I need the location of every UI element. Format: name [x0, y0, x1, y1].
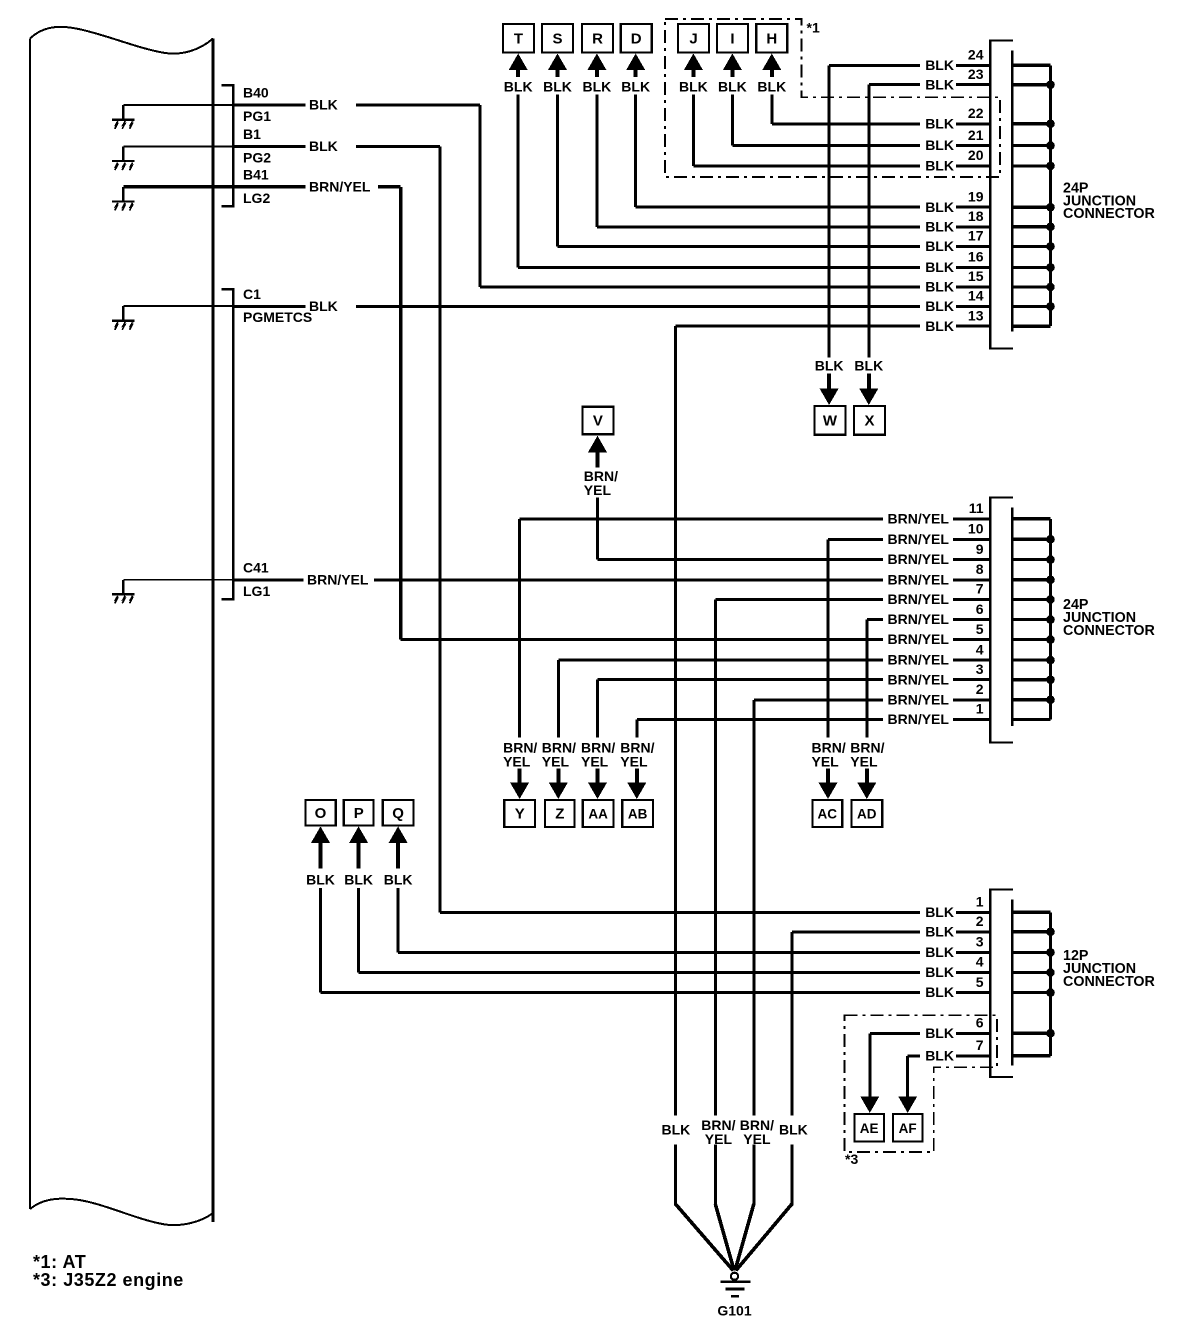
wire label BRN/YEL (AD)	[850, 740, 884, 770]
label 12P JUNCTION CONNECTOR	[1063, 948, 1156, 990]
24P junction connector (middle) pin number 7	[976, 581, 984, 597]
wire label BRN/YEL (C41)	[307, 571, 369, 587]
wire label BLK (12P pin 6)	[925, 1025, 954, 1041]
svg-text:BLK: BLK	[662, 1122, 691, 1138]
connector box Q	[383, 800, 414, 825]
connector box AC	[812, 800, 842, 827]
ground (LG1)	[112, 580, 135, 604]
24P junction connector (upper) pin number 22	[968, 105, 984, 121]
wire label BRN/YEL (B41)	[309, 178, 371, 194]
svg-text:YEL: YEL	[503, 754, 531, 770]
svg-text:*1: AT: *1: AT	[33, 1252, 86, 1272]
svg-text:BRN/YEL: BRN/YEL	[888, 591, 950, 607]
24P junction connector (middle) bus bar	[1049, 519, 1052, 720]
arrow into D	[626, 54, 645, 78]
arrow into I	[723, 54, 742, 78]
wire label BRN/YEL (middle pin 7)	[888, 591, 950, 607]
svg-text:BRN/YEL: BRN/YEL	[888, 551, 950, 567]
wire T to junction pin 16	[517, 95, 991, 269]
svg-text:S: S	[552, 31, 562, 48]
svg-text:YEL: YEL	[743, 1131, 771, 1147]
svg-text:22: 22	[968, 105, 984, 121]
wire S to junction pin 17	[556, 95, 990, 248]
24P junction connector (upper) pin 23 stub	[1012, 83, 1050, 86]
wire 12P junction pin 2 drop (BLK) to G101	[736, 930, 990, 1270]
svg-text:AA: AA	[588, 807, 608, 822]
svg-text:2: 2	[976, 913, 984, 929]
wire label BLK (J)	[679, 79, 708, 95]
connector box S	[542, 24, 573, 53]
wire label BLK (12P pin 1)	[925, 904, 954, 920]
svg-text:*3: *3	[845, 1151, 858, 1167]
internal ground wire (PG2)	[123, 146, 232, 148]
svg-text:BLK: BLK	[925, 279, 954, 295]
svg-text:BLK: BLK	[621, 79, 650, 95]
connector box AD	[851, 800, 882, 827]
svg-text:BLK: BLK	[925, 298, 954, 314]
24P junction connector (upper) pin number 14	[968, 288, 984, 304]
wire label BLK (T)	[504, 79, 533, 95]
pin label C1	[243, 286, 261, 302]
12P junction connector pin 3 bus junction	[1046, 948, 1055, 957]
12P junction connector body	[989, 889, 1013, 1078]
wire label BRN/YEL (middle pin 2)	[888, 691, 950, 707]
connector box V	[582, 407, 613, 435]
wire label BLK (upper pin 20)	[925, 158, 954, 174]
svg-text:YEL: YEL	[584, 482, 612, 498]
wire 24P junction pin 1 to AB (BRN/YEL)	[635, 718, 990, 738]
wire label BLK (B40)	[309, 97, 338, 113]
svg-text:1: 1	[976, 701, 984, 717]
svg-text:BLK: BLK	[757, 79, 786, 95]
svg-text:B41: B41	[243, 166, 269, 182]
wire label BRN/YEL (AC)	[812, 740, 846, 770]
wire label BLK (12P pin 7)	[925, 1047, 954, 1063]
arrow into V	[588, 436, 607, 468]
12P junction connector pin number 7	[976, 1037, 984, 1053]
pin label B40	[243, 85, 269, 101]
wire label BLK (D)	[621, 79, 650, 95]
24P junction connector (middle) pin 8 stub	[1012, 578, 1050, 581]
24P junction connector (middle) pin 9 stub	[1012, 558, 1050, 561]
24P junction connector (upper) pin 22 bus junction	[1046, 120, 1055, 129]
pin label B41	[243, 166, 269, 182]
svg-text:YEL: YEL	[850, 754, 878, 770]
24P junction connector (middle) pin 9 bus junction	[1046, 555, 1055, 564]
svg-text:YEL: YEL	[812, 754, 840, 770]
svg-text:14: 14	[968, 288, 984, 304]
24P junction connector (upper) pin number 19	[968, 188, 984, 204]
arrow into T	[509, 54, 528, 78]
connector box W	[815, 406, 846, 435]
label G101	[717, 1303, 751, 1319]
svg-text:PGMETCS: PGMETCS	[243, 309, 312, 325]
wire B40/PG1 to junction pin 15 (BLK)	[233, 104, 990, 289]
wire label BLK (upper pin 22)	[925, 115, 954, 131]
svg-text:BLK: BLK	[925, 238, 954, 254]
wire 12P junction pin 7 to AF (BLK)	[906, 1054, 990, 1098]
24P junction connector (upper) pin 23 bus junction	[1046, 80, 1055, 89]
svg-text:BLK: BLK	[925, 1025, 954, 1041]
wire label BLK (upper pin 19)	[925, 199, 954, 215]
wire label BRN/YEL (V)	[584, 468, 618, 498]
connector box H	[756, 24, 787, 53]
svg-text:17: 17	[968, 228, 984, 244]
24P junction connector (middle) pin 5 bus junction	[1046, 635, 1055, 644]
12P junction connector pin 5 bus junction	[1046, 988, 1055, 997]
svg-text:1: 1	[976, 894, 984, 910]
svg-text:CONNECTOR: CONNECTOR	[1063, 974, 1156, 990]
svg-text:BLK: BLK	[504, 79, 533, 95]
internal ground wire (PG1)	[123, 104, 232, 106]
connector box Y	[504, 800, 535, 827]
24P junction connector (middle) pin 4 stub	[1012, 659, 1050, 662]
svg-text:BRN/YEL: BRN/YEL	[888, 510, 950, 526]
svg-text:BLK: BLK	[309, 97, 338, 113]
24P junction connector (upper) pin 13 stub	[1012, 325, 1050, 328]
wire P to 12P junction pin 4	[357, 888, 990, 974]
svg-text:BLK: BLK	[925, 158, 954, 174]
svg-text:BRN/YEL: BRN/YEL	[307, 571, 369, 587]
24P junction connector (upper) body	[989, 40, 1013, 350]
svg-text:BLK: BLK	[779, 1122, 808, 1138]
24P junction connector (middle) pin number 8	[976, 561, 984, 577]
svg-text:BLK: BLK	[925, 318, 954, 334]
wire label BLK (12P pin 3)	[925, 944, 954, 960]
svg-text:P: P	[354, 805, 364, 822]
24P junction connector (middle) pin 5 stub	[1012, 638, 1050, 641]
svg-text:AE: AE	[860, 1121, 879, 1136]
svg-text:10: 10	[968, 521, 984, 537]
svg-text:BLK: BLK	[384, 872, 413, 888]
svg-text:X: X	[864, 413, 874, 430]
24P junction connector (middle) pin 4 bus junction	[1046, 656, 1055, 665]
wire label BLK (upper pin 17)	[925, 238, 954, 254]
wire label BRN/YEL (middle pin 9)	[888, 551, 950, 567]
svg-text:LG1: LG1	[243, 583, 270, 599]
arrow into W	[820, 374, 839, 406]
24P junction connector (upper) pin 20 stub	[1012, 164, 1050, 167]
svg-text:11: 11	[969, 500, 984, 516]
12P junction connector pin 1 stub	[1012, 911, 1050, 914]
24P junction connector (middle) pin number 4	[976, 641, 984, 657]
label 24P JUNCTION CONNECTOR (middle)	[1063, 597, 1156, 639]
svg-text:BLK: BLK	[854, 358, 883, 374]
wire junction pin 23 to X	[867, 83, 990, 357]
svg-text:BLK: BLK	[925, 944, 954, 960]
svg-text:BRN/YEL: BRN/YEL	[888, 611, 950, 627]
svg-text:BRN/YEL: BRN/YEL	[888, 652, 950, 668]
arrow into Q	[389, 826, 408, 868]
connector box T	[503, 24, 534, 53]
svg-text:BLK: BLK	[344, 872, 373, 888]
wire label BLK (12P pin 5)	[925, 984, 954, 1000]
wire label BLK (upper pin 18)	[925, 218, 954, 234]
svg-text:BRN/YEL: BRN/YEL	[888, 691, 950, 707]
svg-text:18: 18	[968, 208, 984, 224]
wire C1/PGMETCS to junction pin 14 (BLK)	[233, 305, 990, 308]
svg-text:BLK: BLK	[925, 259, 954, 275]
24P junction connector (middle) pin 11 stub	[1012, 517, 1050, 520]
24P junction connector (middle) pin 10 bus junction	[1046, 535, 1055, 544]
connector box X	[854, 406, 885, 435]
wire I to junction pin 21	[731, 95, 990, 148]
24P junction connector (upper) pin number 23	[968, 66, 984, 82]
svg-text:BRN/YEL: BRN/YEL	[309, 178, 371, 194]
wire label BRN/YEL (middle pin 8)	[888, 571, 950, 587]
12P junction connector pin 6 stub	[1012, 1032, 1050, 1035]
wire O to 12P junction pin 5	[319, 888, 990, 994]
svg-text:19: 19	[968, 188, 984, 204]
svg-text:24: 24	[968, 47, 984, 63]
24P junction connector (middle) pin 7 stub	[1012, 598, 1050, 601]
wire label BLK (R)	[583, 79, 612, 95]
24P junction connector (upper) pin 19 stub	[1012, 206, 1050, 209]
connector box O	[305, 800, 335, 825]
24P junction connector (middle) pin number 9	[976, 541, 984, 557]
24P junction connector (upper) pin number 15	[968, 268, 984, 284]
svg-text:YEL: YEL	[620, 754, 648, 770]
24P junction connector (middle) pin 2 stub	[1012, 698, 1050, 701]
wire label BLK (H)	[757, 79, 786, 95]
svg-text:O: O	[315, 805, 327, 822]
wire 24P junction pin 3 to AA (BRN/YEL)	[596, 678, 990, 737]
connector box D	[621, 24, 652, 53]
24P junction connector (upper) pin number 21	[968, 127, 984, 143]
label 24P JUNCTION CONNECTOR (upper)	[1063, 180, 1156, 222]
svg-text:7: 7	[976, 1037, 984, 1053]
12P junction connector pin 7 stub	[1012, 1054, 1050, 1057]
svg-text:D: D	[631, 31, 642, 48]
24P junction connector (middle) pin 3 bus junction	[1046, 675, 1055, 684]
wire 24P junction pin 10 to AC (BRN/YEL)	[827, 538, 991, 738]
wire label BLK (upper pin 16)	[925, 259, 954, 275]
24P junction connector (middle) pin number 5	[976, 621, 984, 637]
wire label BRN/YEL (middle pin 5)	[888, 631, 950, 647]
wire 12P junction pin 6 to AE (BLK)	[868, 1032, 990, 1098]
svg-text:AD: AD	[857, 807, 877, 822]
connector box AE	[854, 1114, 884, 1142]
24P junction connector (middle) pin 3 stub	[1012, 678, 1050, 681]
wire label BLK (C1)	[309, 298, 338, 314]
wire B1/PG2 to 12P junction pin 1 (BLK)	[233, 145, 990, 914]
svg-text:YEL: YEL	[581, 754, 609, 770]
arrow into AE	[860, 1096, 879, 1113]
arrow into S	[548, 54, 567, 78]
24P junction connector (upper) pin 14 stub	[1012, 305, 1050, 308]
svg-text:BLK: BLK	[679, 79, 708, 95]
wire label BRN/YEL (Y)	[503, 740, 537, 770]
wire 24P junction pin 4 to Z (BRN/YEL)	[557, 659, 991, 738]
wire D to junction pin 19	[634, 95, 990, 209]
24P junction connector (middle) pin number 3	[976, 661, 984, 677]
24P junction connector (upper) pin 24 stub	[1012, 64, 1050, 67]
24P junction connector (upper) pin 14 bus junction	[1046, 302, 1055, 311]
wire label BLK (upper pin 15)	[925, 279, 954, 295]
24P junction connector (upper) pin 22 stub	[1012, 122, 1050, 125]
ground (PG2)	[112, 147, 135, 171]
svg-text:7: 7	[976, 581, 984, 597]
24P junction connector (middle) pin number 10	[968, 521, 984, 537]
svg-text:YEL: YEL	[705, 1131, 733, 1147]
12P junction connector pin 2 stub	[1012, 930, 1050, 933]
svg-text:Y: Y	[515, 806, 525, 823]
wire 24P junction pin 11 to Y (BRN/YEL)	[518, 517, 990, 737]
24P junction connector (upper) bus bar	[1049, 65, 1052, 326]
svg-text:Q: Q	[392, 805, 404, 822]
24P junction connector (upper) pin number 16	[968, 249, 984, 265]
svg-text:H: H	[766, 31, 777, 48]
svg-text:BLK: BLK	[309, 298, 338, 314]
wire label BRN/YEL (AA)	[581, 740, 615, 770]
svg-text:T: T	[514, 31, 523, 48]
svg-text:BLK: BLK	[583, 79, 612, 95]
12P junction connector bus bar	[1049, 912, 1052, 1056]
arrow into Z	[549, 769, 568, 800]
24P junction connector (upper) pin 19 bus junction	[1046, 203, 1055, 212]
24P junction connector (upper) pin 17 stub	[1012, 245, 1050, 248]
svg-text:J: J	[689, 31, 697, 48]
arrow into AC	[819, 769, 838, 800]
ground (PGMETCS)	[112, 306, 135, 330]
wire junction pin 24 to W	[828, 64, 991, 358]
12P junction connector pin number 3	[976, 934, 984, 950]
wire Q to 12P junction pin 3	[397, 888, 991, 954]
24P junction connector (middle) pin 8 bus junction	[1046, 576, 1055, 585]
connector box AB	[622, 800, 653, 827]
24P junction connector (middle) pin 10 stub	[1012, 538, 1050, 541]
24P junction connector (middle) pin 6 bus junction	[1046, 615, 1055, 624]
wire label BLK (X)	[854, 358, 883, 374]
pin label LG1	[243, 583, 270, 599]
svg-text:21: 21	[968, 127, 984, 143]
arrow into AA	[588, 769, 607, 800]
svg-text:B1: B1	[243, 126, 261, 142]
wire C41/LG1 to 24P junction pin 8 (BRN/YEL)	[233, 578, 990, 581]
svg-text:4: 4	[976, 641, 984, 657]
svg-text:R: R	[592, 31, 603, 48]
svg-text:BLK: BLK	[309, 138, 338, 154]
24P junction connector (upper) pin number 17	[968, 228, 984, 244]
arrow into Y	[510, 769, 529, 800]
pin label PG1	[243, 108, 271, 124]
connector box R	[582, 24, 613, 53]
svg-text:9: 9	[976, 541, 984, 557]
svg-text:BLK: BLK	[925, 1047, 954, 1063]
ground G101	[720, 1273, 750, 1298]
svg-text:*1: *1	[807, 20, 820, 36]
24P junction connector (middle) pin 6 stub	[1012, 618, 1050, 621]
12P junction connector pin 3 stub	[1012, 951, 1050, 954]
24P junction connector (middle) pin number 11	[969, 500, 984, 516]
arrow into X	[859, 374, 878, 406]
12P junction connector pin number 1	[976, 894, 984, 910]
svg-text:2: 2	[976, 681, 984, 697]
svg-text:PG2: PG2	[243, 150, 271, 166]
wire label BRN/YEL (middle pin 10)	[888, 531, 950, 547]
pin label PGMETCS	[243, 309, 312, 325]
dash-dot option box *3 (J35Z2)	[845, 1015, 997, 1152]
wire B41/LG2 to 24P junction pin 5 (BRN/YEL)	[233, 185, 990, 641]
wire label BLK (Q)	[384, 872, 413, 888]
svg-text:C41: C41	[243, 559, 269, 575]
label *3	[845, 1151, 858, 1167]
wire label BLK (upper pin 14)	[925, 298, 954, 314]
24P junction connector (middle) pin 7 bus junction	[1046, 595, 1055, 604]
svg-text:G101: G101	[717, 1303, 751, 1319]
connector box J	[678, 24, 709, 53]
svg-text:BLK: BLK	[925, 218, 954, 234]
24P junction connector (upper) pin 15 stub	[1012, 285, 1050, 288]
wire label BLK (S)	[543, 79, 572, 95]
svg-text:BRN/YEL: BRN/YEL	[888, 531, 950, 547]
wire label at G101 drop	[740, 1117, 774, 1147]
arrow into AD	[857, 769, 876, 800]
arrow into J	[684, 54, 703, 78]
svg-text:6: 6	[976, 1015, 984, 1031]
svg-text:BLK: BLK	[925, 923, 954, 939]
wire junction pin 13 drop (BLK) to G101	[674, 325, 990, 1271]
24P junction connector (upper) pin number 13	[968, 307, 984, 323]
svg-text:PG1: PG1	[243, 108, 271, 124]
connector box I	[717, 24, 748, 53]
wire label BLK (upper pin 21)	[925, 137, 954, 153]
arrow into O	[311, 826, 330, 868]
pin label B1	[243, 126, 261, 142]
12P junction connector pin 6 bus junction	[1046, 1029, 1055, 1038]
wire label at G101 drop	[662, 1122, 691, 1138]
wire label BRN/YEL (middle pin 1)	[888, 711, 950, 727]
svg-text:6: 6	[976, 601, 984, 617]
12P junction connector pin 4 stub	[1012, 971, 1050, 974]
12P junction connector pin number 4	[976, 954, 984, 970]
12P junction connector pin 5 stub	[1012, 991, 1050, 994]
wire label BRN/YEL (middle pin 11)	[888, 510, 950, 526]
24P junction connector (upper) pin 16 bus junction	[1046, 263, 1055, 272]
24P junction connector (upper) pin 16 stub	[1012, 266, 1050, 269]
svg-text:BRN/YEL: BRN/YEL	[888, 571, 950, 587]
svg-text:BRN/YEL: BRN/YEL	[888, 671, 950, 687]
pin label LG2	[243, 190, 270, 206]
24P junction connector (upper) pin number 24	[968, 47, 984, 63]
svg-text:5: 5	[976, 974, 984, 990]
connector bracket (C1/PGMETCS,C41/LG1)	[222, 288, 235, 600]
wire label BLK (12P pin 4)	[925, 964, 954, 980]
svg-text:BRN/YEL: BRN/YEL	[888, 631, 950, 647]
24P junction connector (middle) pin number 6	[976, 601, 984, 617]
svg-text:3: 3	[976, 934, 984, 950]
wire R to junction pin 18	[595, 95, 990, 229]
svg-text:AC: AC	[818, 807, 838, 822]
svg-text:YEL: YEL	[542, 754, 570, 770]
footnote *1: AT	[33, 1252, 86, 1272]
wire label BLK (I)	[718, 79, 747, 95]
svg-text:13: 13	[968, 307, 984, 323]
wire label BLK (P)	[344, 872, 373, 888]
24P junction connector (upper) pin 15 bus junction	[1046, 283, 1055, 292]
wire 24P junction pin 6 to AD (BRN/YEL)	[865, 618, 990, 737]
12P junction connector pin number 2	[976, 913, 984, 929]
wire label BRN/YEL (Z)	[542, 740, 576, 770]
connector box AF	[893, 1114, 923, 1142]
svg-text:BLK: BLK	[925, 964, 954, 980]
connector bracket (B40/PG1,B1/PG2,B41/LG2)	[222, 84, 235, 207]
arrow into R	[587, 54, 606, 78]
24P junction connector (upper) pin number 18	[968, 208, 984, 224]
svg-text:I: I	[730, 31, 734, 48]
wire label BRN/YEL (middle pin 3)	[888, 671, 950, 687]
svg-text:BLK: BLK	[925, 115, 954, 131]
